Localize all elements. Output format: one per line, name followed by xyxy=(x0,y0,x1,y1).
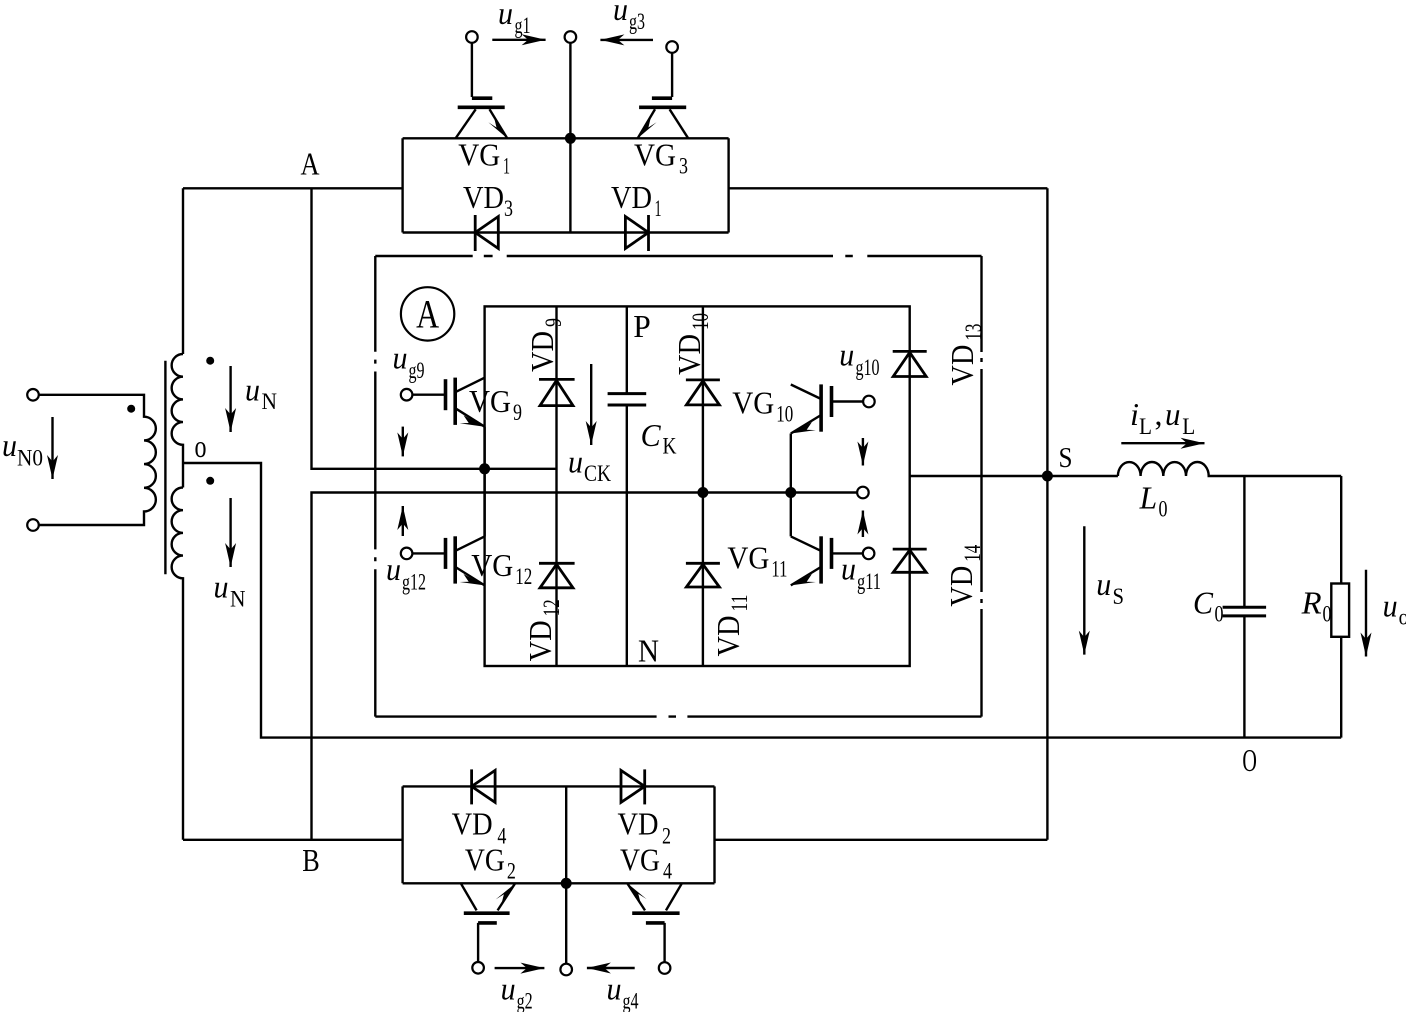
label uN bottom xyxy=(214,569,246,612)
svg-text:g3: g3 xyxy=(629,9,645,34)
arrow uo xyxy=(1365,570,1367,657)
arrow uN bottom xyxy=(229,498,231,567)
label VD14 rotated xyxy=(943,544,985,606)
svg-text:VD: VD xyxy=(463,179,504,215)
transformer primary winding xyxy=(39,395,156,525)
arrow below ug9 xyxy=(402,427,404,457)
svg-text:g2: g2 xyxy=(517,989,533,1012)
label VD4 xyxy=(452,806,507,849)
svg-text:N: N xyxy=(262,389,278,414)
svg-text:CK: CK xyxy=(584,461,611,486)
svg-text:u: u xyxy=(1165,396,1181,432)
arrow ug4 xyxy=(587,967,635,969)
svg-text:,: , xyxy=(1155,396,1163,432)
svg-text:VD: VD xyxy=(522,620,558,661)
svg-text:u: u xyxy=(1383,587,1398,623)
svg-text:VG: VG xyxy=(465,842,505,878)
svg-text:u: u xyxy=(613,0,628,27)
label VG1 xyxy=(458,136,510,178)
wire bottom rail xyxy=(403,882,715,884)
svg-text:VG: VG xyxy=(620,842,660,878)
svg-text:0: 0 xyxy=(1159,496,1168,521)
svg-text:g12: g12 xyxy=(402,570,426,595)
diode VD3 xyxy=(474,215,477,251)
dash-dot box A border bottom xyxy=(375,715,981,717)
svg-text:VD: VD xyxy=(943,566,979,607)
arrow uCK xyxy=(590,364,592,445)
svg-text:VG: VG xyxy=(634,136,676,172)
svg-text:S: S xyxy=(1113,584,1125,609)
junction dot S xyxy=(1042,471,1053,482)
bottom block top edge xyxy=(403,785,715,787)
wire VG9-VG12 link xyxy=(483,427,485,537)
capacitor CK top lead xyxy=(626,306,628,393)
wire top rail xyxy=(403,137,729,139)
arrow ug1 xyxy=(492,39,545,41)
diode VD10 xyxy=(686,378,720,381)
svg-text:u: u xyxy=(393,340,408,376)
wire right outer vertical xyxy=(1046,188,1048,840)
svg-text:g4: g4 xyxy=(623,989,639,1012)
svg-text:u: u xyxy=(386,551,401,587)
svg-text:u: u xyxy=(568,443,583,479)
wire VG10-VG11 link xyxy=(790,434,792,537)
terminal primary top xyxy=(27,389,39,401)
svg-text:VG: VG xyxy=(458,136,500,172)
transistor VG4 xyxy=(627,883,645,910)
svg-text:VD: VD xyxy=(524,331,560,372)
svg-text:A: A xyxy=(416,292,439,337)
transistor VG12 xyxy=(401,548,413,560)
svg-text:VD: VD xyxy=(452,806,493,842)
transformer core xyxy=(164,361,166,575)
svg-text:g9: g9 xyxy=(409,358,425,383)
svg-text:3: 3 xyxy=(504,196,513,221)
inductor L0 xyxy=(1118,462,1341,476)
svg-text:g10: g10 xyxy=(856,355,880,380)
terminal ug1 xyxy=(466,31,478,43)
svg-text:N: N xyxy=(230,587,246,612)
label VG12 xyxy=(471,547,532,589)
label uN0 xyxy=(2,427,43,471)
label VG9 xyxy=(469,383,522,425)
arrow uN top xyxy=(229,366,231,432)
junction dot top center xyxy=(565,133,576,144)
label L0 xyxy=(1139,480,1168,522)
svg-text:4: 4 xyxy=(663,859,672,884)
arrow uS xyxy=(1083,526,1085,654)
svg-text:12: 12 xyxy=(515,564,532,589)
svg-text:P: P xyxy=(633,308,651,344)
svg-text:u: u xyxy=(839,337,854,373)
arrow ug3 xyxy=(600,39,653,41)
label ug4 xyxy=(607,971,639,1012)
arrow below ug10 xyxy=(862,438,864,466)
bottom block right edge xyxy=(713,786,715,883)
capacitor C0 top lead xyxy=(1243,476,1245,607)
resistor R0 xyxy=(1340,476,1342,584)
top block left edge xyxy=(401,138,403,232)
junction dot bottom center xyxy=(561,878,572,889)
label C0 xyxy=(1193,585,1224,627)
label ug12 xyxy=(386,551,426,595)
svg-text:L: L xyxy=(1139,480,1157,516)
label VG2 xyxy=(465,842,516,884)
svg-text:C: C xyxy=(641,417,662,453)
diode VD1 xyxy=(647,215,650,251)
label uCK xyxy=(568,443,611,486)
label CK xyxy=(641,417,677,459)
label VD12 rotated xyxy=(522,599,564,661)
diode VD13 xyxy=(893,350,927,353)
label uo xyxy=(1383,587,1406,629)
wire S output xyxy=(910,475,1118,477)
svg-text:VD: VD xyxy=(618,806,659,842)
svg-text:u: u xyxy=(2,427,17,463)
junction dot VG10 column xyxy=(785,487,796,498)
svg-text:A: A xyxy=(301,146,320,182)
svg-text:u: u xyxy=(501,971,516,1007)
svg-text:11: 11 xyxy=(771,557,787,582)
wire top center vertical xyxy=(569,43,571,233)
svg-text:VD: VD xyxy=(944,345,980,386)
svg-text:u: u xyxy=(1096,566,1111,602)
svg-text:10: 10 xyxy=(776,402,793,427)
svg-text:1: 1 xyxy=(503,153,510,178)
svg-text:VG: VG xyxy=(471,547,513,583)
label ug3 xyxy=(613,0,645,34)
label ug11 xyxy=(841,551,881,595)
svg-text:S: S xyxy=(1059,443,1073,474)
label ug2 xyxy=(501,971,533,1012)
diode VD12 xyxy=(539,562,575,565)
junction dot VD10 column xyxy=(697,487,708,498)
diode VD14 xyxy=(893,548,927,551)
label uN top xyxy=(245,372,277,415)
label VD9 rotated xyxy=(524,318,566,372)
terminal ug3 xyxy=(666,41,678,53)
svg-text:3: 3 xyxy=(679,153,688,178)
secondary bottom polarity dot xyxy=(206,477,214,485)
svg-text:VD: VD xyxy=(611,179,652,215)
svg-text:K: K xyxy=(663,434,677,459)
svg-text:B: B xyxy=(302,842,320,878)
label VD1 xyxy=(611,179,662,221)
svg-text:u: u xyxy=(607,971,622,1007)
wire VD9-VD12 column xyxy=(555,306,557,666)
diode VD2 xyxy=(643,769,646,804)
svg-text:C: C xyxy=(1193,585,1214,621)
svg-text:O: O xyxy=(1242,742,1257,778)
svg-text:u: u xyxy=(841,551,856,587)
label VD11 rotated xyxy=(710,595,752,657)
wire B rail right segment xyxy=(715,839,1048,841)
label ug1 xyxy=(498,0,531,38)
transformer secondary bottom winding xyxy=(172,488,183,840)
wire o tap to O rail xyxy=(183,463,1341,738)
terminal bottom center xyxy=(560,964,572,976)
svg-text:R: R xyxy=(1301,585,1322,621)
label ug10 xyxy=(839,337,879,381)
transistor VG11 xyxy=(863,548,875,560)
label VG11 xyxy=(727,540,787,582)
dash-dot box A border right xyxy=(980,256,982,717)
label uS xyxy=(1096,566,1124,609)
svg-text:L: L xyxy=(1182,414,1195,439)
svg-text:o: o xyxy=(195,428,207,464)
svg-text:1: 1 xyxy=(655,196,662,221)
diode VD11 xyxy=(686,562,720,565)
svg-text:12: 12 xyxy=(539,599,564,616)
wire A branch to left bridge leg xyxy=(312,188,557,469)
terminal top center xyxy=(565,31,577,43)
svg-text:9: 9 xyxy=(513,400,522,425)
svg-text:0: 0 xyxy=(1215,602,1224,627)
arrow uN0 xyxy=(51,417,53,479)
arrow above ug11 xyxy=(862,511,864,538)
svg-text:2: 2 xyxy=(507,859,516,884)
top block right edge xyxy=(727,138,729,232)
transistor VG1 xyxy=(471,43,473,97)
svg-text:o: o xyxy=(1399,604,1406,629)
capacitor C0 plates xyxy=(1223,606,1267,609)
svg-text:0: 0 xyxy=(1323,602,1332,627)
svg-text:g1: g1 xyxy=(515,13,531,38)
inner bridge box xyxy=(485,306,910,666)
svg-text:VG: VG xyxy=(469,383,511,419)
svg-text:L: L xyxy=(1139,414,1152,439)
wire B rail left segment xyxy=(183,839,403,841)
dash-dot box A border top xyxy=(375,255,981,257)
bottom block left edge xyxy=(401,786,403,883)
secondary top polarity dot xyxy=(206,357,214,365)
svg-text:11: 11 xyxy=(727,595,752,612)
svg-text:2: 2 xyxy=(662,824,671,849)
label VG3 xyxy=(634,136,688,178)
transistor VG9 xyxy=(401,389,413,401)
label ug9 xyxy=(393,340,425,383)
wire left outer edge top xyxy=(182,188,184,354)
svg-text:g11: g11 xyxy=(857,569,881,594)
transistor VG2 xyxy=(461,883,477,910)
label VG10 xyxy=(732,385,793,427)
svg-text:VG: VG xyxy=(732,385,774,421)
svg-text:u: u xyxy=(498,0,513,31)
transistor VG10 xyxy=(863,396,875,408)
transformer secondary top winding xyxy=(172,354,183,488)
wire bottom center vertical xyxy=(565,786,567,963)
wire B branch to right bridge leg xyxy=(312,493,857,840)
block label circle A xyxy=(401,287,454,340)
wire VD10-VD11 column xyxy=(702,306,704,666)
terminal primary bottom xyxy=(27,519,39,531)
svg-text:13: 13 xyxy=(961,324,986,341)
arrow iL xyxy=(1121,442,1204,444)
wire A rail left segment xyxy=(183,187,403,189)
svg-text:VD: VD xyxy=(710,616,746,657)
svg-text:14: 14 xyxy=(960,544,985,561)
arrow above ug12 xyxy=(402,506,404,536)
label R0 xyxy=(1301,585,1332,627)
diode VD4 xyxy=(470,769,473,804)
capacitor CK bottom lead xyxy=(626,405,628,666)
label VD3 xyxy=(463,179,513,221)
dash-dot box A border left xyxy=(374,256,376,717)
svg-text:10: 10 xyxy=(688,313,713,330)
wire A rail right segment xyxy=(729,187,1048,189)
label VD2 xyxy=(618,806,672,849)
label VD10 rotated xyxy=(671,313,713,375)
label VG4 xyxy=(620,842,672,884)
svg-text:i: i xyxy=(1130,396,1139,432)
junction dot left leg xyxy=(479,463,490,474)
arrow ug2 xyxy=(495,967,545,969)
terminal mid right xyxy=(857,487,869,499)
svg-text:VG: VG xyxy=(727,540,769,576)
capacitor CK plates xyxy=(608,392,647,395)
svg-text:N: N xyxy=(638,632,659,668)
svg-text:9: 9 xyxy=(541,318,566,327)
svg-text:N0: N0 xyxy=(17,446,43,471)
capacitor C0 bottom lead xyxy=(1243,616,1245,738)
svg-text:u: u xyxy=(245,372,260,408)
label VD13 rotated xyxy=(944,324,986,386)
svg-text:VD: VD xyxy=(671,334,707,375)
label iL uL xyxy=(1130,396,1195,439)
diode VD9 xyxy=(539,378,575,381)
transistor VG3 xyxy=(671,53,673,97)
primary polarity dot xyxy=(127,405,135,413)
svg-text:u: u xyxy=(214,569,229,605)
top block bottom edge xyxy=(403,231,729,233)
